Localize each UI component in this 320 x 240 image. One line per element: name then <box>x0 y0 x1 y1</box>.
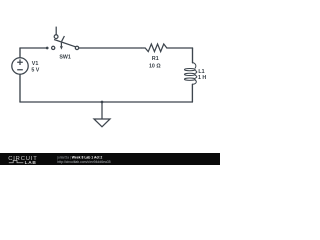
wire left vertical top (V1 to top rail) <box>19 48 21 58</box>
switch left terminal <box>52 46 55 49</box>
svg-text:julian5a | Week 8 Lab 1 Act 2: julian5a | Week 8 Lab 1 Act 2 <box>56 155 102 159</box>
svg-text:1 H: 1 H <box>198 75 206 81</box>
switch actuator tick <box>62 36 65 41</box>
wire left vertical bottom (V1 to bottom rail) <box>19 74 21 102</box>
node junction dot <box>46 47 49 50</box>
switch right terminal <box>75 46 78 49</box>
node junction dot at ground tap <box>101 101 104 104</box>
switch blade <box>54 40 75 47</box>
switch top stub wire <box>55 27 57 35</box>
wire top rail right segment (R1 to corner) <box>167 47 193 49</box>
switch SW1 <box>46 27 79 50</box>
svg-text:SW1: SW1 <box>59 54 71 60</box>
svg-text:http://circuitlab.com/c/ev94dd: http://circuitlab.com/c/ev94dd6ea35 <box>57 160 110 164</box>
switch actuator arrow <box>60 43 62 47</box>
wire bottom rail <box>20 101 192 103</box>
ground <box>94 101 110 127</box>
svg-text:V1: V1 <box>32 61 39 67</box>
voltage source V1 <box>12 58 28 74</box>
footer logo waveform <box>9 160 23 162</box>
svg-text:LAB: LAB <box>25 160 37 165</box>
footer bar <box>0 153 220 165</box>
svg-text:R1: R1 <box>152 56 159 62</box>
switch top terminal <box>54 35 58 39</box>
wire top rail left segment <box>20 47 47 49</box>
inductor L1 <box>184 63 196 85</box>
wire top rail middle segment (switch to R1) <box>79 47 142 49</box>
svg-text:5 V: 5 V <box>31 68 39 74</box>
wire right vertical bottom (L1 to bottom rail) <box>191 84 193 102</box>
svg-text:10 Ω: 10 Ω <box>149 63 161 69</box>
ground triangle <box>94 119 110 127</box>
ground stub wire <box>101 102 103 119</box>
resistor R1 <box>142 44 167 52</box>
wire right vertical top (corner to L1) <box>192 48 194 63</box>
